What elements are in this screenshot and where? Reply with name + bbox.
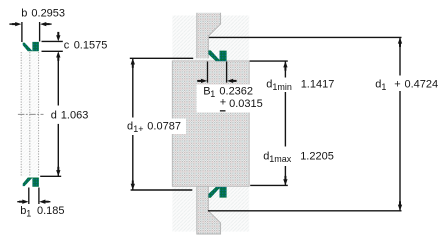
dimension b1: right arrow [39,200,50,204]
label d1+ 0.0787 [125,119,187,135]
svg-text:1: 1 [26,209,31,219]
dimension d1+: extension line top [130,57,193,59]
svg-text:1.2205: 1.2205 [300,150,334,162]
svg-text:b: b [21,8,27,20]
label d 1.063 [51,109,89,121]
dimension b1: extension line right [38,188,40,205]
label d1max 1.2205 [263,150,334,164]
label d1 + 0.4724 [373,77,440,92]
dimension d1: top arrow [398,37,402,75]
dimension d1max: extension line [250,184,288,186]
svg-text:0.0787: 0.0787 [147,121,181,133]
svg-text:+: + [220,97,226,109]
dimension d1 shoulder: extension line bottom [208,210,402,212]
dimension b: left arrow [9,22,21,26]
left seal body area faint fill [21,52,38,176]
dimension d1min/max: top arrow [283,61,287,67]
label b1 0.185 [20,205,64,218]
svg-text:1: 1 [381,82,386,92]
svg-text:0.2953: 0.2953 [31,8,65,20]
dimension b: extension line right [39,22,41,42]
dimension d: vertical line lower segment [57,124,59,176]
svg-text:d: d [51,109,57,121]
dimension d1min/max: bottom arrow [283,179,287,185]
dimension b1: left arrow [17,200,28,204]
dimension b: extension line left [21,22,23,42]
dimension d1: bottom arrow [398,91,402,211]
shaft lower section [197,186,221,234]
svg-text:1min: 1min [272,82,292,92]
svg-text:0.2362: 0.2362 [219,85,253,97]
shaft upper section [197,13,221,58]
dimension d: bottom arrow [56,170,60,176]
label c 0.1575 [64,39,108,51]
svg-text:+: + [394,79,400,91]
dimension d1 shoulder: extension line top [209,36,402,38]
seal section bottom (green) [23,178,39,187]
body silhouette dashed line right [38,52,40,176]
dimension B1: right arrow [227,79,237,83]
centerline [18,113,44,115]
dimension d1min: extension line [250,60,288,62]
housing hatch area bottom [172,186,249,231]
dimension d1+: top arrow [131,58,135,117]
seal body block [172,61,249,186]
dimension c: top arrow [56,32,60,42]
svg-text:1: 1 [210,89,215,99]
svg-text:0.185: 0.185 [37,205,65,217]
seal section bottom (green, mounted) [208,187,226,198]
svg-text:1.063: 1.063 [61,109,89,121]
dimension c: extension line bottom [42,50,63,52]
svg-text:0.0315: 0.0315 [229,98,263,110]
dimension d1+: bottom arrow [131,135,135,190]
label B1 0.2362 +/- 0.0315 [197,85,263,113]
dimension B1: extension line right [226,62,228,83]
dimension c: extension line top [42,40,63,42]
dimension d1min/d1max: vertical line segments [284,61,286,77]
seal section top (green) [23,42,39,51]
dimension B1: left arrow [197,79,207,83]
dimension B1: extension line left [207,62,209,83]
body silhouette dashed line left [20,52,22,176]
dimension b1: extension line left [28,188,30,205]
dimension d: vertical line upper segment [57,53,59,106]
label d1min 1.1417 [266,79,334,93]
body silhouette dashed line middle [29,52,31,176]
dimension c: bottom arrow (shared with d top) [56,51,60,57]
housing hatch area top [172,16,249,61]
dimension b: right arrow [40,22,52,26]
svg-text:1max: 1max [269,154,292,164]
svg-text:1+: 1+ [133,124,143,134]
svg-text:c: c [64,39,70,51]
svg-text:0.4724: 0.4724 [405,79,439,91]
svg-text:1.1417: 1.1417 [301,79,335,91]
seal section top (green, mounted) [208,50,226,61]
svg-text:0.1575: 0.1575 [74,39,108,51]
dimension d1+: extension line bottom [131,189,193,191]
dimension d: extension line bottom [40,175,61,177]
label b 0.2953 [21,8,65,20]
